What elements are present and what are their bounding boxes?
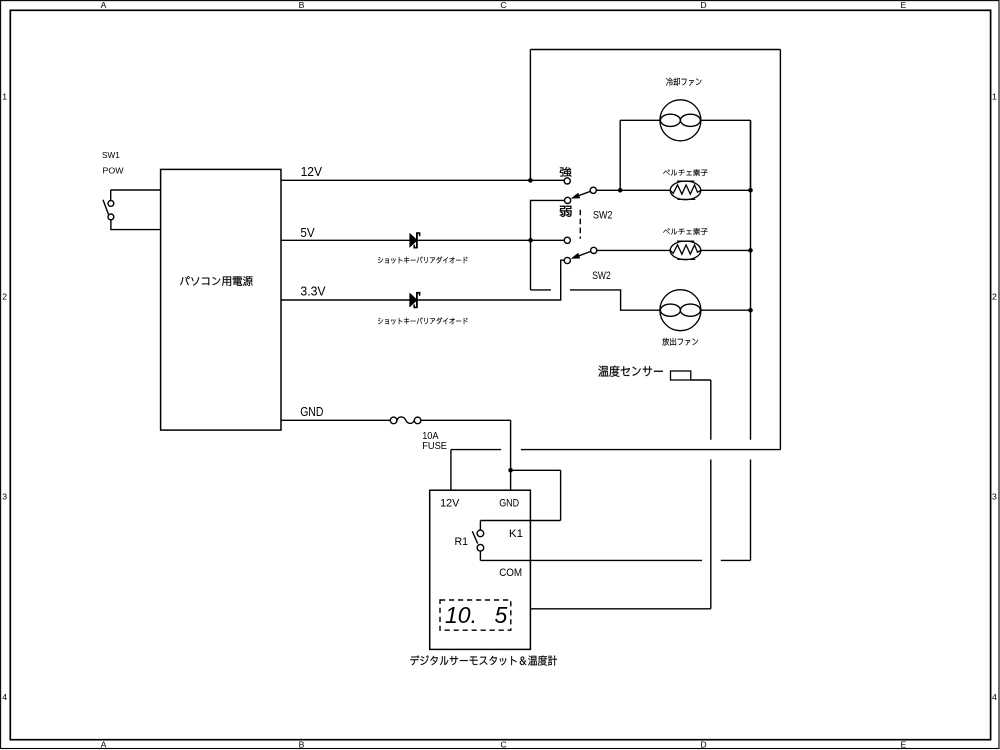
- relay R1 contact bottom: [477, 544, 484, 551]
- svg-text:SW2: SW2: [592, 270, 611, 282]
- mechanical link between SW2 sections (dashed): [579, 210, 581, 239]
- arrowhead SW2 upper lever: [571, 193, 581, 199]
- svg-text:E: E: [901, 0, 907, 10]
- fuse F1 wave: [397, 417, 414, 424]
- svg-text:C: C: [500, 0, 506, 10]
- schottky barrier diode D1: [410, 232, 420, 248]
- wire load return bus (gap at 12V feed crossing): [750, 120, 752, 560]
- svg-text:2: 2: [992, 292, 997, 302]
- label ショットキーバリアダイオード D2: [378, 317, 468, 324]
- thermostat unit box デジタルサーモスタット: [430, 490, 531, 649]
- SW2 lower throw 5V: [564, 237, 570, 243]
- svg-text:GND: GND: [300, 404, 323, 419]
- wire top bus: [530, 49, 780, 51]
- junction GND node: [508, 468, 513, 473]
- wire temp sensor to display: [530, 380, 710, 609]
- arrowhead SW2 lower lever: [571, 253, 581, 259]
- svg-text:12V: 12V: [301, 164, 323, 179]
- SW2 upper pole: [590, 187, 596, 193]
- wire SW2 upper weak-throw to 5V node: [531, 200, 568, 290]
- svg-text:10.: 10.: [445, 602, 477, 628]
- PC power supply unit box パソコン用電源: [161, 169, 281, 430]
- switch SW2 upper lever: [573, 190, 594, 198]
- svg-text:1: 1: [992, 92, 997, 102]
- wire GND rail with fuse: [281, 420, 511, 490]
- label 温度センサー: [598, 366, 662, 377]
- schottky barrier diode D2: [410, 292, 420, 308]
- svg-text:SW1: SW1: [102, 151, 120, 160]
- svg-text:4: 4: [2, 692, 7, 702]
- fan M1 冷却ファン: [660, 100, 701, 141]
- junction fan1 left: [618, 188, 623, 193]
- wire SW1 bottom to PSU: [111, 220, 161, 230]
- relay R1 lever: [472, 531, 477, 543]
- svg-text:E: E: [901, 740, 907, 750]
- wire cooling fan branch: [620, 120, 750, 190]
- label 弱: [560, 206, 572, 217]
- wire K1 output to load return (hops over sensor drop): [480, 559, 750, 561]
- svg-text:3.3V: 3.3V: [300, 284, 326, 299]
- SW2 upper throw 強: [564, 178, 570, 184]
- svg-text:5V: 5V: [300, 225, 315, 240]
- svg-text:C: C: [500, 740, 506, 750]
- svg-text:1: 1: [2, 92, 7, 102]
- SW2 lower pole: [591, 247, 597, 253]
- wire 12V rail: [281, 179, 567, 181]
- relay R1 contact top: [477, 530, 484, 537]
- temperature sensor body 温度センサー: [671, 371, 691, 380]
- fuse F1 terminal right: [414, 417, 421, 424]
- svg-text:3: 3: [992, 492, 997, 502]
- svg-text:POW: POW: [103, 167, 124, 176]
- SW2 lower throw 3.3V: [564, 257, 570, 263]
- junction return bus peltier2: [748, 248, 753, 253]
- wire 5V rail: [281, 239, 567, 241]
- switch SW1 contact top: [108, 201, 114, 207]
- svg-text:A: A: [101, 740, 107, 750]
- wire 12V riser to top bus: [529, 50, 531, 181]
- fuse F1 terminal left: [390, 417, 397, 424]
- svg-text:3: 3: [2, 492, 7, 502]
- svg-text:D: D: [700, 740, 706, 750]
- svg-text:B: B: [299, 740, 305, 750]
- svg-text:12V: 12V: [440, 497, 460, 509]
- label 放出ファン: [662, 338, 698, 346]
- wire SW2 lower pole to peltier 2: [594, 249, 751, 251]
- svg-text:A: A: [101, 0, 107, 10]
- svg-text:K1: K1: [509, 528, 523, 540]
- wire GND node to relay K1 top contact: [480, 470, 560, 530]
- svg-text:B: B: [299, 0, 305, 10]
- wire 3.3V rail: [281, 260, 567, 300]
- display window dashed box: [440, 600, 511, 630]
- label 冷却ファン: [666, 78, 701, 86]
- label ショットキーバリアダイオード D1: [378, 257, 468, 264]
- wire right 12V bus: [779, 50, 781, 450]
- wire SW2 upper pole to loads: [593, 189, 750, 191]
- wire relay bottom contact down: [479, 551, 481, 561]
- junction 5V node: [528, 238, 533, 243]
- junction return bus peltier1: [748, 188, 753, 193]
- SW2 upper throw 弱: [565, 197, 571, 203]
- svg-text:R1: R1: [455, 536, 469, 548]
- wire 12V feed to thermostat (hops over GND drop): [451, 450, 781, 491]
- label デジタルサーモスタット＆温度計: [410, 655, 557, 665]
- wire SW1 top to PSU: [111, 190, 161, 201]
- svg-text:GND: GND: [499, 497, 519, 509]
- svg-text:FUSE: FUSE: [422, 441, 447, 452]
- svg-text:2: 2: [2, 292, 7, 302]
- switch SW2 lower lever: [573, 250, 594, 258]
- switch SW1 contact bottom: [108, 214, 114, 220]
- fan M2 放出ファン: [660, 290, 701, 331]
- switch SW1 lever: [103, 200, 108, 215]
- label ペルチェ素子 TEC1: [663, 169, 707, 176]
- svg-text:4: 4: [992, 692, 997, 702]
- label パソコン用電源: [180, 276, 253, 286]
- svg-text:D: D: [700, 0, 706, 10]
- peltier element TEC1 ペルチェ素子: [670, 181, 701, 200]
- label 強: [560, 167, 572, 177]
- svg-text:COM: COM: [499, 567, 522, 579]
- peltier element TEC2 ペルチェ素子: [670, 241, 701, 260]
- label ペルチェ素子 TEC2: [663, 228, 707, 235]
- junction return bus fan2: [748, 308, 753, 313]
- svg-text:5: 5: [495, 602, 508, 628]
- wire exhaust fan right: [701, 309, 751, 311]
- svg-text:SW2: SW2: [593, 209, 613, 221]
- wire node to exhaust fan (hops over 3.3V riser): [531, 290, 661, 310]
- junction 12V riser: [528, 178, 533, 183]
